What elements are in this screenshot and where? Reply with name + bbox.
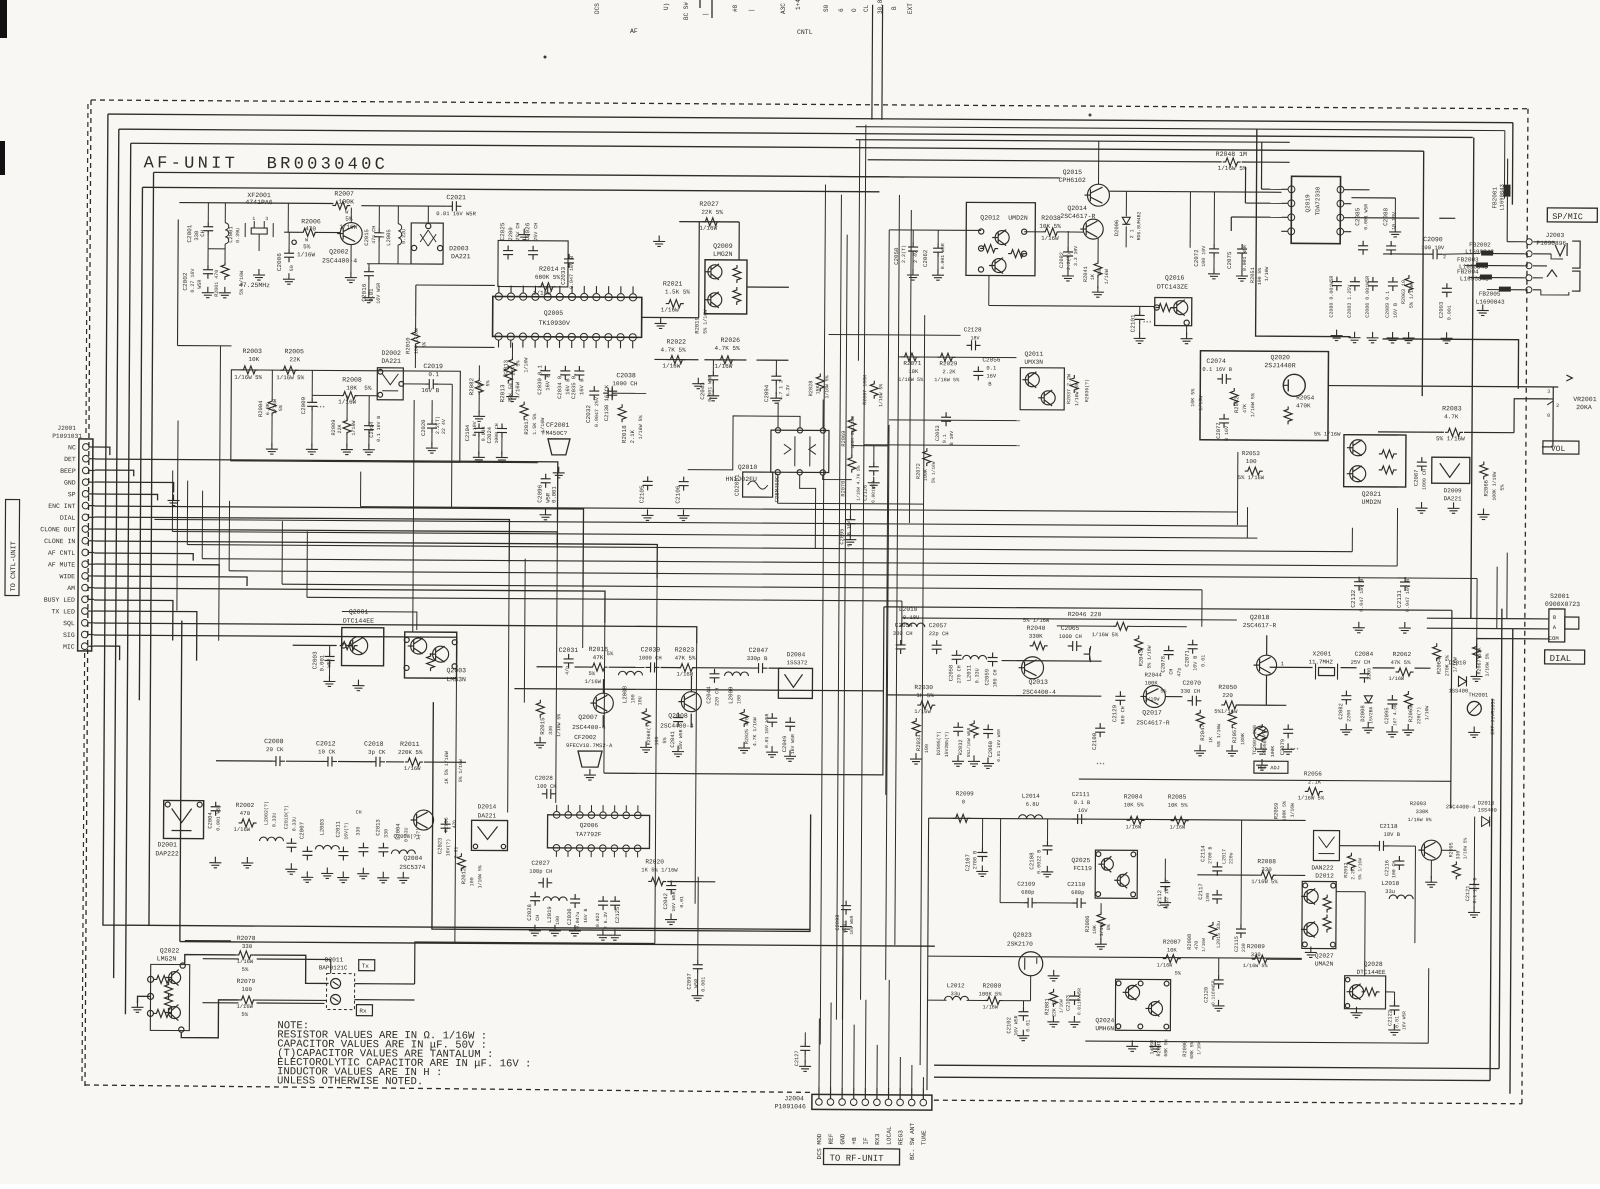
svg-text:C2107: C2107 bbox=[964, 853, 971, 871]
svg-text:C2019: C2019 bbox=[423, 363, 443, 370]
svg-text:Q2009: Q2009 bbox=[713, 243, 733, 250]
svg-text:Q2007: Q2007 bbox=[578, 714, 598, 721]
svg-text:2 6.3V: 2 6.3V bbox=[603, 912, 609, 929]
svg-text:1/16W 5%: 1/16W 5% bbox=[1074, 383, 1080, 406]
svg-text:TX LED: TX LED bbox=[51, 608, 75, 615]
svg-text:L2003: L2003 bbox=[319, 819, 326, 836]
svg-text:R2083: R2083 bbox=[1442, 405, 1462, 412]
svg-text:100: 100 bbox=[630, 694, 636, 703]
svg-text:C2087: C2087 bbox=[1413, 470, 1420, 487]
svg-text:3: 3 bbox=[1547, 389, 1550, 395]
svg-text:R2098: R2098 bbox=[1187, 934, 1193, 950]
svg-text:11.7MHZ: 11.7MHZ bbox=[1309, 658, 1334, 665]
svg-text:10K 5%: 10K 5% bbox=[1190, 389, 1196, 407]
svg-text:L2010: L2010 bbox=[899, 606, 918, 613]
svg-text:1.5K 5%: 1.5K 5% bbox=[532, 414, 538, 435]
svg-text:100K: 100K bbox=[1144, 679, 1158, 686]
svg-text:R2007: R2007 bbox=[334, 190, 354, 197]
svg-text:5%: 5% bbox=[241, 1011, 248, 1018]
svg-text:R2056: R2056 bbox=[1304, 770, 1322, 777]
svg-text:R2005: R2005 bbox=[284, 348, 304, 355]
svg-text:22K: 22K bbox=[289, 356, 300, 363]
svg-text:D2009: D2009 bbox=[1444, 487, 1462, 494]
svg-text:330K: 330K bbox=[1416, 809, 1430, 815]
svg-text:10V B: 10V B bbox=[1193, 656, 1199, 671]
svg-text:SP/MIC: SP/MIC bbox=[1552, 212, 1583, 222]
svg-text:0.39U: 0.39U bbox=[235, 228, 241, 243]
svg-text:33u: 33u bbox=[1385, 888, 1395, 895]
svg-text:FC119: FC119 bbox=[1073, 865, 1092, 872]
svg-text:6.8U: 6.8U bbox=[1026, 801, 1039, 808]
svg-text:330: 330 bbox=[383, 829, 389, 838]
svg-text:R2072: R2072 bbox=[916, 463, 922, 479]
svg-text:REF: REF bbox=[828, 1133, 835, 1144]
svg-text:0.1 16V B: 0.1 16V B bbox=[1202, 366, 1232, 373]
svg-text:+B: +B bbox=[851, 1137, 858, 1145]
svg-text:Q2015: Q2015 bbox=[1063, 169, 1083, 176]
svg-text:10K: 10K bbox=[248, 356, 259, 363]
svg-text:B 16V: B 16V bbox=[1224, 426, 1230, 441]
svg-text:1/16W 4.7K 5%: 1/16W 4.7K 5% bbox=[856, 465, 862, 500]
svg-text:10 10V: 10 10V bbox=[1391, 212, 1397, 230]
svg-text:R2015: R2015 bbox=[539, 717, 546, 735]
svg-text:220: 220 bbox=[1222, 692, 1233, 699]
svg-text:2SK2170: 2SK2170 bbox=[1007, 941, 1033, 948]
svg-text:LMG2N: LMG2N bbox=[157, 955, 177, 962]
svg-text:1/16W 5%: 1/16W 5% bbox=[824, 375, 830, 398]
svg-text:4.7K 5%: 4.7K 5% bbox=[714, 345, 740, 352]
svg-text:0.01: 0.01 bbox=[1201, 655, 1207, 667]
svg-text:R2018: R2018 bbox=[621, 425, 628, 443]
svg-text:5%: 5% bbox=[242, 966, 249, 973]
svg-text:BEEP: BEEP bbox=[60, 468, 76, 475]
svg-text:680p: 680p bbox=[1021, 889, 1034, 896]
svg-text:5%: 5% bbox=[1175, 971, 1182, 977]
svg-text:ENC INT: ENC INT bbox=[48, 503, 75, 510]
svg-text:C2039: C2039 bbox=[641, 646, 661, 653]
svg-text:270 CH: 270 CH bbox=[956, 665, 962, 683]
svg-text:100K: 100K bbox=[338, 199, 354, 206]
svg-text:100: 100 bbox=[654, 736, 660, 745]
svg-text:100p CH: 100p CH bbox=[529, 868, 552, 875]
svg-text:470K: 470K bbox=[1296, 402, 1311, 409]
svg-text:L2018: L2018 bbox=[1381, 880, 1399, 887]
svg-text:D2014: D2014 bbox=[478, 803, 497, 810]
svg-text:22K 5%: 22K 5% bbox=[701, 209, 723, 216]
svg-text:R2013: R2013 bbox=[502, 360, 509, 377]
svg-text:1/16W: 1/16W bbox=[1388, 676, 1404, 682]
svg-text:C2101: C2101 bbox=[1130, 314, 1137, 332]
svg-text:1K: 1K bbox=[1090, 274, 1096, 280]
svg-text:SP: SP bbox=[68, 491, 76, 498]
svg-text:Q2028: Q2028 bbox=[1364, 961, 1383, 968]
svg-text:R2028: R2028 bbox=[808, 380, 814, 396]
svg-text:R2092: R2092 bbox=[1343, 863, 1349, 878]
svg-text:R2038: R2038 bbox=[1041, 215, 1061, 222]
svg-text:1/16W 5%: 1/16W 5% bbox=[477, 865, 483, 888]
svg-text:1/16W: 1/16W bbox=[404, 765, 421, 772]
svg-text:5% 1/16W: 5% 1/16W bbox=[703, 310, 709, 334]
svg-text:DCS: DCS bbox=[594, 3, 601, 14]
svg-text:220(?): 220(?) bbox=[1416, 707, 1422, 724]
svg-text:100: 100 bbox=[924, 744, 930, 753]
svg-text:R2037 2.2W: R2037 2.2W bbox=[1066, 374, 1072, 404]
svg-text:CF2002: CF2002 bbox=[574, 734, 597, 741]
svg-text:20KA: 20KA bbox=[1576, 404, 1592, 411]
svg-text:S0: S0 bbox=[823, 4, 830, 12]
svg-text:RX3: RX3 bbox=[874, 1133, 881, 1144]
svg-text:C2030 0.1: C2030 0.1 bbox=[536, 364, 543, 394]
svg-text:C2049: C2049 bbox=[781, 736, 788, 753]
svg-text:DA221: DA221 bbox=[381, 358, 401, 365]
svg-text:100: 100 bbox=[555, 916, 561, 925]
svg-text:R2020: R2020 bbox=[645, 858, 664, 865]
svg-text:GND: GND bbox=[839, 1133, 846, 1144]
svg-text:1/16W 5%: 1/16W 5% bbox=[1218, 165, 1247, 172]
svg-text:C2094: C2094 bbox=[763, 384, 770, 402]
svg-text:Q2019: Q2019 bbox=[1304, 194, 1311, 212]
svg-text:TA7792F: TA7792F bbox=[576, 831, 602, 838]
svg-text:C2127: C2127 bbox=[794, 1050, 800, 1066]
svg-text:1/16W: 1/16W bbox=[1149, 1040, 1155, 1055]
svg-text:X2001: X2001 bbox=[1313, 650, 1332, 657]
svg-text:CLONE OUT: CLONE OUT bbox=[40, 526, 75, 533]
svg-text:Q2011: Q2011 bbox=[1024, 351, 1043, 358]
svg-text:R2071: R2071 bbox=[903, 360, 921, 367]
svg-text:1/16W 5%: 1/16W 5% bbox=[1462, 837, 1468, 859]
svg-text:Q2005: Q2005 bbox=[544, 310, 564, 317]
svg-text:Q2006: Q2006 bbox=[580, 822, 599, 829]
svg-text:P1091046: P1091046 bbox=[775, 1103, 806, 1110]
svg-text:Q2018: Q2018 bbox=[1250, 614, 1270, 621]
svg-text:16V W5R: 16V W5R bbox=[790, 734, 796, 754]
svg-text:***: *** bbox=[1096, 762, 1105, 768]
svg-text:C2108: C2108 bbox=[1028, 852, 1035, 870]
svg-text:1/16W: 1/16W bbox=[1264, 267, 1270, 282]
svg-text:470: 470 bbox=[452, 820, 458, 828]
svg-text:5%: 5% bbox=[1160, 689, 1166, 695]
svg-text:R2053: R2053 bbox=[1242, 450, 1260, 457]
svg-text:R2017: R2017 bbox=[523, 418, 530, 435]
svg-text:R2051: R2051 bbox=[1250, 267, 1256, 283]
svg-text:47K 5%: 47K 5% bbox=[675, 655, 696, 662]
svg-text:TO RF-UNIT: TO RF-UNIT bbox=[830, 1154, 885, 1164]
svg-text:DIAL: DIAL bbox=[60, 515, 76, 522]
svg-text:5%: 5% bbox=[303, 243, 311, 250]
svg-text:4.7 1 2: 4.7 1 2 bbox=[778, 380, 784, 400]
svg-text:C2041: C2041 bbox=[669, 730, 676, 747]
svg-text:22K: 22K bbox=[337, 424, 343, 433]
svg-text:BAP0121C: BAP0121C bbox=[319, 964, 348, 971]
svg-text:5% 1/16W: 5% 1/16W bbox=[1238, 474, 1265, 481]
svg-text:0.001 W5R: 0.001 W5R bbox=[940, 243, 946, 269]
svg-text:C2099: C2099 bbox=[835, 915, 841, 931]
svg-text:0: 0 bbox=[1547, 413, 1550, 419]
svg-text:1/16W: 1/16W bbox=[297, 251, 315, 258]
svg-text:47p: 47p bbox=[1176, 668, 1182, 677]
svg-text:0.047 16V B: 0.047 16V B bbox=[1359, 579, 1365, 612]
svg-text:SIG: SIG bbox=[63, 632, 75, 639]
svg-text:L2002(?): L2002(?) bbox=[264, 801, 270, 825]
svg-text:25V CH: 25V CH bbox=[515, 223, 521, 241]
svg-text:Q2004(?): Q2004(?) bbox=[393, 833, 419, 840]
svg-text:L2008: L2008 bbox=[621, 685, 628, 703]
svg-text:1/16W: 1/16W bbox=[1126, 824, 1142, 830]
svg-text:DTC144EE: DTC144EE bbox=[1357, 969, 1386, 976]
svg-text:C2062: C2062 bbox=[922, 249, 929, 267]
svg-text:100K 5%1/16W: 100K 5%1/16W bbox=[850, 416, 856, 449]
svg-text:CNTL: CNTL bbox=[797, 29, 813, 36]
svg-text:W5R: W5R bbox=[694, 979, 700, 988]
svg-text:W5R: W5R bbox=[197, 280, 203, 289]
svg-text:100 CH: 100 CH bbox=[1391, 861, 1397, 878]
svg-text:16V(?): 16V(?) bbox=[445, 839, 451, 856]
svg-text:C2056: C2056 bbox=[982, 356, 1000, 363]
svg-text:0.0022 B: 0.0022 B bbox=[1036, 850, 1042, 874]
svg-text:L2005: L2005 bbox=[385, 229, 392, 246]
svg-text:5%: 5% bbox=[485, 380, 491, 386]
svg-text:1/16W 5%: 1/16W 5% bbox=[276, 374, 304, 381]
svg-text:16V W5R: 16V W5R bbox=[849, 915, 855, 934]
svg-text:C2083 1.25V: C2083 1.25V bbox=[1347, 285, 1353, 318]
svg-text:J2003: J2003 bbox=[1546, 232, 1565, 239]
svg-text:Q2014: Q2014 bbox=[1067, 205, 1087, 212]
svg-text:C2078: C2078 bbox=[1160, 656, 1167, 673]
svg-text:Q2022: Q2022 bbox=[160, 947, 180, 954]
svg-text:2.2(T): 2.2(T) bbox=[901, 245, 907, 263]
svg-text:16? 4.5R: 16? 4.5R bbox=[1392, 704, 1398, 726]
svg-text:GND: GND bbox=[64, 480, 76, 487]
svg-text:1/16W: 1/16W bbox=[1290, 803, 1296, 818]
svg-text:16V B: 16V B bbox=[1393, 303, 1399, 318]
svg-text:2200: 2200 bbox=[507, 227, 514, 240]
svg-text:C2077: C2077 bbox=[1215, 422, 1222, 439]
svg-text:CPH6102: CPH6102 bbox=[1059, 177, 1086, 184]
svg-text:L2019: L2019 bbox=[546, 906, 553, 923]
svg-text:COM: COM bbox=[1549, 635, 1559, 642]
svg-text:C2103: C2103 bbox=[1065, 995, 1071, 1011]
svg-text:0.001: 0.001 bbox=[1447, 305, 1453, 320]
svg-text:16V B: 16V B bbox=[583, 909, 589, 924]
svg-text:TO CNTL-UNIT: TO CNTL-UNIT bbox=[10, 541, 18, 591]
svg-text:C2122: C2122 bbox=[1387, 1010, 1393, 1026]
svg-text:1/16W 5%: 1/16W 5% bbox=[1250, 393, 1256, 417]
svg-text:6.3V: 6.3V bbox=[785, 385, 791, 397]
svg-text:S2001: S2001 bbox=[1550, 593, 1570, 600]
svg-text:1/16W: 1/16W bbox=[514, 381, 521, 398]
svg-text:TK10930V: TK10930V bbox=[539, 320, 570, 327]
svg-text:1.5K 5%: 1.5K 5% bbox=[665, 289, 691, 296]
svg-text:16V B: 16V B bbox=[578, 378, 585, 395]
svg-text:C2095: C2095 bbox=[1383, 707, 1390, 724]
svg-text:C2104: C2104 bbox=[464, 424, 471, 441]
svg-text:16V W5R: 16V W5R bbox=[376, 283, 382, 304]
svg-text:0.1: 0.1 bbox=[986, 364, 997, 371]
svg-text:1SS372: 1SS372 bbox=[787, 659, 808, 666]
svg-text:2.1K: 2.1K bbox=[1308, 778, 1322, 785]
svg-text:220 CH: 220 CH bbox=[714, 688, 720, 706]
svg-text:D2008: D2008 bbox=[1359, 705, 1366, 722]
svg-text:A3C: A3C bbox=[780, 3, 787, 14]
svg-text:CL: CL bbox=[863, 4, 870, 12]
svg-text:0.1 10V B: 0.1 10V B bbox=[1472, 877, 1478, 903]
svg-text:100K: 100K bbox=[1270, 746, 1276, 758]
svg-text:DA221: DA221 bbox=[1444, 495, 1462, 502]
svg-text:R2048 1M: R2048 1M bbox=[1216, 151, 1247, 158]
svg-text:C2082: C2082 bbox=[1337, 703, 1344, 720]
svg-text:R2099: R2099 bbox=[956, 790, 974, 797]
svg-text:5% 1/16W: 5% 1/16W bbox=[1357, 858, 1363, 880]
svg-text:1/16W: 1/16W bbox=[662, 362, 680, 369]
svg-text:HN1J02FU: HN1J02FU bbox=[726, 476, 757, 483]
svg-text:B: B bbox=[891, 6, 898, 10]
svg-text:1/16W 5%: 1/16W 5% bbox=[898, 377, 924, 383]
svg-text:5%: 5% bbox=[607, 650, 614, 657]
svg-text:1/16W: 1/16W bbox=[1104, 269, 1110, 284]
svg-text:C2021: C2021 bbox=[446, 194, 466, 201]
svg-text:O: O bbox=[851, 8, 858, 12]
svg-text:FM450C?: FM450C? bbox=[542, 430, 568, 437]
svg-text:330K: 330K bbox=[1029, 633, 1043, 640]
svg-text:AF MUTE: AF MUTE bbox=[48, 561, 75, 568]
svg-text:C2033: C2033 bbox=[560, 266, 567, 284]
svg-text:0.27 16V: 0.27 16V bbox=[190, 269, 196, 293]
svg-text:0.01: 0.01 bbox=[453, 847, 459, 859]
svg-text:CH: CH bbox=[535, 915, 541, 921]
svg-text:C2132: C2132 bbox=[1350, 589, 1357, 607]
svg-text:C2059: C2059 bbox=[983, 669, 990, 686]
svg-text:Q2013: Q2013 bbox=[1028, 679, 1048, 686]
svg-text:2700 B: 2700 B bbox=[972, 851, 978, 870]
svg-text:C2026: C2026 bbox=[524, 222, 531, 240]
svg-text:R2096: R2096 bbox=[444, 817, 450, 832]
svg-text:2SC4617-R: 2SC4617-R bbox=[1136, 719, 1170, 726]
svg-text:0: 0 bbox=[962, 798, 965, 805]
svg-text:LOCAL: LOCAL bbox=[886, 1126, 893, 1145]
svg-text:2SC4400-4: 2SC4400-4 bbox=[1446, 803, 1476, 810]
svg-text:L2015 33u: L2015 33u bbox=[1216, 921, 1222, 948]
svg-text:1/16W 5%: 1/16W 5% bbox=[1485, 653, 1491, 676]
svg-text:R2059: R2059 bbox=[1273, 803, 1280, 820]
svg-text:5% 1/16W: 5% 1/16W bbox=[1023, 617, 1050, 624]
svg-text:5%: 5% bbox=[588, 670, 595, 677]
svg-text:6: 6 bbox=[838, 8, 845, 12]
svg-text:C2024: C2024 bbox=[486, 426, 493, 443]
svg-text:DAP222: DAP222 bbox=[155, 850, 179, 857]
svg-text:1/16W: 1/16W bbox=[714, 363, 732, 370]
svg-text:100 5%: 100 5% bbox=[1257, 268, 1263, 285]
svg-text:5% 1/16W: 5% 1/16W bbox=[1436, 435, 1465, 442]
svg-text:R2081: R2081 bbox=[1043, 998, 1050, 1015]
svg-text:1000 CH: 1000 CH bbox=[1422, 469, 1428, 490]
svg-text:22 4V: 22 4V bbox=[441, 419, 447, 434]
svg-text:10 CK: 10 CK bbox=[318, 748, 336, 755]
svg-text:C2071: C2071 bbox=[1184, 649, 1191, 666]
svg-text:R2010: R2010 bbox=[404, 337, 411, 354]
svg-text:DAN222: DAN222 bbox=[1311, 864, 1334, 871]
svg-text:10K 5%: 10K 5% bbox=[1124, 801, 1145, 808]
svg-text:Q2016: Q2016 bbox=[1165, 275, 1185, 282]
svg-text:22p CH: 22p CH bbox=[929, 630, 949, 637]
svg-text:C2095: C2095 bbox=[839, 529, 845, 545]
svg-text:C2038: C2038 bbox=[616, 372, 636, 379]
svg-text:BUSY LED: BUSY LED bbox=[44, 597, 75, 604]
svg-text:0.18U: 0.18U bbox=[903, 614, 920, 621]
svg-text:C2013: C2013 bbox=[375, 819, 382, 836]
svg-text:47K: 47K bbox=[593, 654, 604, 661]
svg-text:C2004: C2004 bbox=[207, 812, 214, 829]
svg-text:15V2B6: 15V2B6 bbox=[1368, 706, 1374, 723]
svg-text:C2057: C2057 bbox=[929, 622, 947, 629]
svg-text:C2131: C2131 bbox=[1396, 590, 1403, 608]
svg-text:2200: 2200 bbox=[1366, 668, 1372, 680]
svg-text:R2057: R2057 bbox=[1231, 726, 1238, 743]
svg-text:0.047 16V B: 0.047 16V B bbox=[569, 256, 575, 289]
svg-text:0.1 B: 0.1 B bbox=[1074, 799, 1091, 806]
svg-text:10K 5%: 10K 5% bbox=[1168, 802, 1189, 809]
svg-text:1/16W: 1/16W bbox=[351, 421, 357, 436]
svg-text:1000 CH: 1000 CH bbox=[1059, 633, 1082, 640]
svg-text:0.01: 0.01 bbox=[1025, 1020, 1031, 1032]
svg-text:5%1/16W: 5%1/16W bbox=[1214, 708, 1238, 715]
svg-text:R2023: R2023 bbox=[675, 647, 695, 654]
svg-text:CH: CH bbox=[356, 810, 362, 816]
svg-text:R2086: R2086 bbox=[1084, 916, 1091, 933]
svg-text:0900X0723: 0900X0723 bbox=[1545, 601, 1580, 608]
svg-text:C2093: C2093 bbox=[1438, 302, 1445, 319]
svg-text:C2116: C2116 bbox=[1384, 860, 1390, 876]
svg-text:0.001 W5R: 0.001 W5R bbox=[1363, 204, 1369, 230]
svg-text:R2090: R2090 bbox=[1182, 1041, 1188, 1057]
svg-text:REF ADJ: REF ADJ bbox=[1258, 765, 1280, 771]
svg-text:L2009: L2009 bbox=[727, 686, 734, 704]
svg-text:#8: #8 bbox=[732, 4, 739, 12]
svg-text:10K: 10K bbox=[346, 385, 357, 392]
svg-text:C2075: C2075 bbox=[1226, 251, 1233, 269]
svg-text:C2070: C2070 bbox=[1182, 680, 1201, 687]
svg-text:25V CH: 25V CH bbox=[1351, 659, 1371, 666]
svg-text:Q2023: Q2023 bbox=[1013, 932, 1032, 939]
svg-text:1/16W: 1/16W bbox=[523, 358, 529, 373]
svg-text:D2004: D2004 bbox=[787, 651, 806, 658]
svg-text:680p: 680p bbox=[1071, 889, 1084, 896]
svg-text:2200: 2200 bbox=[1346, 710, 1352, 722]
svg-text:R2011: R2011 bbox=[400, 741, 420, 748]
svg-text:4.7K 5%: 4.7K 5% bbox=[660, 346, 686, 353]
svg-text:470: 470 bbox=[1194, 941, 1200, 950]
svg-text:C2035 0.: C2035 0. bbox=[570, 373, 577, 399]
svg-text:2 1: 2 1 bbox=[1129, 229, 1135, 238]
svg-text:1/16W: 1/16W bbox=[982, 1004, 998, 1010]
svg-text:4.7K: 4.7K bbox=[1444, 413, 1459, 420]
svg-text:Q2010: Q2010 bbox=[738, 464, 758, 471]
svg-text:UMD2N: UMD2N bbox=[1008, 215, 1028, 222]
svg-text:330: 330 bbox=[548, 726, 554, 735]
svg-text:DA221: DA221 bbox=[478, 812, 497, 819]
svg-text:2700 B: 2700 B bbox=[1207, 846, 1213, 863]
svg-text:0.01: 0.01 bbox=[679, 896, 685, 908]
svg-text:R2093: R2093 bbox=[1410, 800, 1427, 807]
svg-text:1/16W: 1/16W bbox=[1424, 706, 1430, 721]
svg-text:DTC144EE: DTC144EE bbox=[343, 618, 374, 625]
svg-text:0.01: 0.01 bbox=[1394, 1016, 1400, 1028]
svg-text:TDA72330: TDA72330 bbox=[1314, 186, 1321, 215]
svg-text:16V W5R: 16V W5R bbox=[1401, 1011, 1407, 1030]
svg-text:***: *** bbox=[1143, 320, 1152, 326]
svg-text:R2087: R2087 bbox=[1163, 939, 1181, 946]
svg-text:4.7K 1/16W: 4.7K 1/16W bbox=[752, 717, 758, 746]
svg-text:Q2025: Q2025 bbox=[1071, 857, 1090, 864]
